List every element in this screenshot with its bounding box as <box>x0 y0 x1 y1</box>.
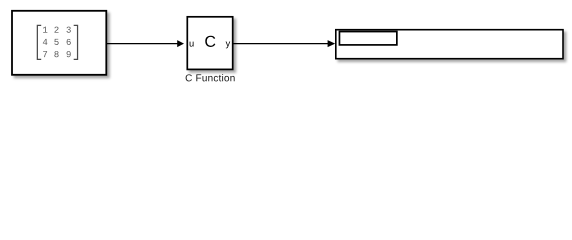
matrix digit 5 <box>54 39 58 45</box>
matrix digit 2 <box>54 27 58 33</box>
wire C Function to Display <box>234 43 329 45</box>
matrix digit 7 <box>43 51 47 57</box>
constant block Constant (3x3 matrix value) <box>12 11 106 75</box>
C glyph <box>205 36 215 47</box>
matrix digit 9 <box>67 51 71 57</box>
arrowhead into Display <box>328 40 336 47</box>
matrix digit 3 <box>67 27 71 33</box>
matrix digit 6 <box>67 39 71 45</box>
port label y <box>226 41 231 48</box>
matrix right bracket <box>74 25 78 59</box>
display value field <box>339 32 396 45</box>
port label u <box>190 42 194 47</box>
label C Function <box>186 74 235 81</box>
arrowhead into C Function <box>177 40 184 47</box>
matrix digit 1 <box>43 27 47 33</box>
block Display <box>336 30 563 59</box>
matrix digit 4 <box>43 39 47 45</box>
matrix left bracket <box>37 25 41 59</box>
wire Constant to C Function <box>107 43 178 45</box>
matrix digit 8 <box>54 51 58 57</box>
block C Function <box>187 17 232 70</box>
